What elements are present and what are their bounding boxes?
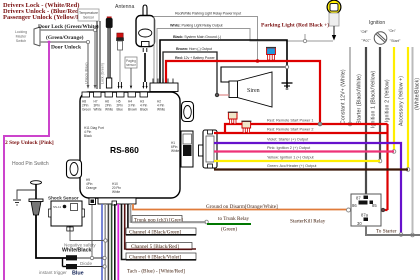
wire relay 85 red jumper xyxy=(381,208,388,212)
wire hood switch ground xyxy=(13,190,36,205)
diode D2 xyxy=(63,258,107,269)
wire bundle black vertical xyxy=(114,204,116,280)
svg-text:RS-860: RS-860 xyxy=(110,145,139,155)
svg-text:87: 87 xyxy=(356,196,361,201)
svg-text:Red/White Parking Light Relay: Red/White Parking Light Relay Power Inpu… xyxy=(175,12,241,16)
wire orange ground on disarm xyxy=(133,204,351,212)
svg-text:Master: Master xyxy=(16,35,28,39)
svg-text:Tach - (Blue) - [White/Red]: Tach - (Blue) - [White/Red] xyxy=(127,268,185,275)
svg-text:Red: 12v + Battery Power: Red: 12v + Battery Power xyxy=(175,56,216,60)
wire red 12v battery power xyxy=(166,61,320,124)
relay K1 starter kill xyxy=(351,194,381,226)
svg-text:Antenna: Antenna xyxy=(115,4,134,10)
svg-text:85: 85 xyxy=(372,203,377,208)
wire trunk pop grey xyxy=(131,204,209,224)
wire bundle darkgreen vertical xyxy=(111,204,113,280)
valet button SW2 xyxy=(116,33,124,89)
wire constant 12V white xyxy=(344,47,352,128)
switch hood pin SW3 xyxy=(29,181,43,223)
connector H8 tab xyxy=(82,92,91,112)
wire accessory yellow xyxy=(406,47,410,171)
svg-text:instant trigger: instant trigger xyxy=(39,270,67,275)
wire to starter xyxy=(366,226,420,235)
wire siren ground lead xyxy=(221,65,289,82)
wire yellow ignition1 output xyxy=(214,160,380,162)
svg-text:Parking Light (Red Black +): Parking Light (Red Black +) xyxy=(261,22,329,29)
wire door unlock xyxy=(40,40,90,89)
connector H10 label xyxy=(112,182,121,194)
wire black system main ground xyxy=(160,40,287,88)
sensor microphone M1 xyxy=(106,17,113,89)
svg-text:Passenger Unlock (Yellow/Red): Passenger Unlock (Yellow/Red) xyxy=(3,14,90,21)
svg-text:Lock (Green): Lock (Green) xyxy=(101,63,105,84)
connector shock sensor plug xyxy=(67,226,73,231)
svg-text:Green: Green xyxy=(82,108,91,112)
node red junction battery xyxy=(256,59,260,63)
svg-text:Door Unlock: Door Unlock xyxy=(51,45,82,51)
wire tach blue vertical xyxy=(101,204,103,280)
connector right oval plug xyxy=(182,102,194,122)
connector main harness plug xyxy=(199,130,218,168)
wire channel5 black/red xyxy=(125,204,196,249)
wire white/black starter side xyxy=(411,47,415,237)
svg-text:Black: Black xyxy=(84,134,92,138)
node Trunk pop label xyxy=(132,216,206,224)
svg-text:Siren: Siren xyxy=(247,88,260,94)
wire ignition1 black/yellow xyxy=(378,47,382,163)
svg-text:2 Step Unlock [Pink]: 2 Step Unlock [Pink] xyxy=(5,140,54,146)
connector left oval plug xyxy=(67,160,82,178)
svg-text:Temperature: Temperature xyxy=(79,11,98,15)
connector H9 plug xyxy=(89,198,96,205)
svg-text:Black: System Main Ground (-): Black: System Main Ground (-) xyxy=(173,35,221,39)
wire shock sensor to unit xyxy=(70,231,107,242)
svg-text:(Green): (Green) xyxy=(221,226,237,233)
lamp parking light bulb xyxy=(327,0,341,40)
fuse F1 battery xyxy=(266,48,276,61)
wire door lock xyxy=(40,28,97,89)
svg-text:"Acc": "Acc" xyxy=(361,39,371,43)
svg-text:Locking: Locking xyxy=(15,30,27,34)
svg-text:Black: Black xyxy=(140,108,148,112)
svg-text:Pink: Ignition 2 (+) Output: Pink: Ignition 2 (+) Output xyxy=(267,146,311,150)
svg-text:Door Lock (Green/White): Door Lock (Green/White) xyxy=(38,23,99,30)
svg-text:"Start": "Start" xyxy=(390,39,401,43)
svg-text:Brown: Horn (-) Output: Brown: Horn (-) Output xyxy=(176,47,212,51)
wire red remote start power 2 xyxy=(214,124,388,210)
connector H1 socket right side xyxy=(171,131,193,167)
svg-text:Constant 12V+ (White): Constant 12V+ (White) xyxy=(341,69,347,124)
connector H2 white multipin xyxy=(150,79,178,112)
wire brown horn output xyxy=(163,52,217,94)
svg-text:White/Black: White/Black xyxy=(62,248,92,254)
connector H10 plug xyxy=(98,198,136,205)
op-unit U1 RS-860 main module xyxy=(80,92,180,198)
svg-text:"Off": "Off" xyxy=(360,30,368,34)
svg-text:Hood Pin Switch: Hood Pin Switch xyxy=(12,161,49,167)
svg-text:sensor: sensor xyxy=(126,63,137,67)
svg-text:"On": "On" xyxy=(388,29,396,33)
wire violet starter output xyxy=(214,143,403,236)
svg-text:Yellow: Ignition 1 (+) Output: Yellow: Ignition 1 (+) Output xyxy=(267,156,315,160)
svg-text:86: 86 xyxy=(352,203,357,208)
wire bundle gray vertical xyxy=(104,204,106,280)
diode D1 xyxy=(66,255,106,260)
svg-text:White: White xyxy=(112,190,120,194)
svg-text:Violet: Starter (+) Output: Violet: Starter (+) Output xyxy=(267,138,309,142)
connector H4 tab xyxy=(128,92,137,112)
svg-text:White: White xyxy=(105,108,113,112)
paging sensor box xyxy=(125,57,137,89)
svg-text:White: Parking Light Relay Out: White: Parking Light Relay Output xyxy=(170,24,222,28)
svg-text:Ignition: Ignition xyxy=(369,20,385,26)
svg-text:Blue: Blue xyxy=(117,108,124,112)
fuse F3 remote start 2 xyxy=(241,121,251,133)
speaker siren SP1 xyxy=(229,72,272,107)
wire 2 step unlock pink xyxy=(4,41,50,280)
wire white parking light relay output xyxy=(157,29,333,84)
svg-text:30: 30 xyxy=(357,221,362,226)
wire green to trunk relay xyxy=(207,216,251,233)
wire magenta vertical xyxy=(117,204,119,280)
wire channel6 black/violet xyxy=(122,204,197,260)
svg-text:White: White xyxy=(157,108,165,112)
svg-text:SS-11: SS-11 xyxy=(53,205,61,209)
svg-text:Unlock (Blue): Unlock (Blue) xyxy=(85,62,89,84)
antenna A1 xyxy=(115,4,155,89)
svg-text:To Starter: To Starter xyxy=(376,229,397,235)
svg-text:Ignition 2 (Yellow): Ignition 2 (Yellow) xyxy=(385,79,391,122)
temperature sensor TS1 xyxy=(78,9,99,21)
svg-text:Accessory (Yellow +): Accessory (Yellow +) xyxy=(399,76,405,126)
connector H9 label xyxy=(86,178,97,190)
svg-text:White: White xyxy=(171,149,179,153)
svg-text:(Green/Orange): (Green/Orange) xyxy=(46,34,84,41)
ground chassis G1 xyxy=(282,83,293,89)
wire bundle darkgray vertical xyxy=(107,204,109,280)
svg-text:Shock Sensor: Shock Sensor xyxy=(48,196,79,201)
node Channel 5 label xyxy=(126,243,192,251)
svg-text:Ground on Disarm[Orange/White]: Ground on Disarm[Orange/White] xyxy=(206,204,278,210)
wire green acc heater output xyxy=(214,168,408,170)
node Channel 6 label xyxy=(126,253,196,261)
wire pink ignition2 output xyxy=(214,150,394,152)
wire ignition2 yellow xyxy=(392,47,396,153)
svg-text:to Trunk Relay: to Trunk Relay xyxy=(218,216,250,222)
svg-text:Red: Remote Start Power 1: Red: Remote Start Power 1 xyxy=(267,119,313,123)
node junction parking light xyxy=(303,34,306,43)
fuse F2 remote start 1 xyxy=(228,112,238,124)
wire hood switch lead xyxy=(36,223,66,258)
wire red/white parking light relay power input xyxy=(154,17,258,84)
switch ignition key cylinder xyxy=(360,29,401,44)
svg-text:Red: Remote Start Power 2: Red: Remote Start Power 2 xyxy=(267,128,313,132)
connector H11 diag port label xyxy=(84,126,104,138)
connector H7 tab xyxy=(94,92,102,112)
sensor shock SS1 xyxy=(49,201,85,226)
switch S1 locking master switch xyxy=(15,27,40,46)
wire red remote start power 1 xyxy=(225,122,388,133)
svg-text:Blue: Blue xyxy=(72,271,84,277)
wire siren positive red lead xyxy=(215,93,229,97)
connector H5 tab xyxy=(117,92,125,112)
svg-text:Starter (Black/White): Starter (Black/White) xyxy=(357,74,363,124)
svg-text:(White/Black): (White/Black) xyxy=(415,78,420,110)
svg-text:Green: Acc/Heater (+) Output: Green: Acc/Heater (+) Output xyxy=(267,164,317,168)
svg-text:87a: 87a xyxy=(361,213,369,218)
connector H6 tab xyxy=(105,92,113,112)
node Channel 4 label xyxy=(126,228,196,236)
wire starter black/white xyxy=(365,47,367,196)
svg-text:Switch: Switch xyxy=(16,39,26,43)
svg-text:White: White xyxy=(94,108,102,112)
svg-text:Ignition 1 (Black/Yellow): Ignition 1 (Black/Yellow) xyxy=(371,70,377,128)
wire channel4 black/green xyxy=(128,204,196,235)
svg-text:Diode: Diode xyxy=(80,261,92,266)
svg-text:Orange: Orange xyxy=(86,186,97,190)
svg-text:Brown: Brown xyxy=(128,108,137,112)
wire white/black negative safety xyxy=(91,205,93,258)
wire temperature sensor lead xyxy=(97,21,100,89)
connector H3 tab xyxy=(140,92,148,112)
svg-text:Sensor: Sensor xyxy=(83,16,95,20)
svg-text:StarterKill Relay: StarterKill Relay xyxy=(290,219,326,225)
